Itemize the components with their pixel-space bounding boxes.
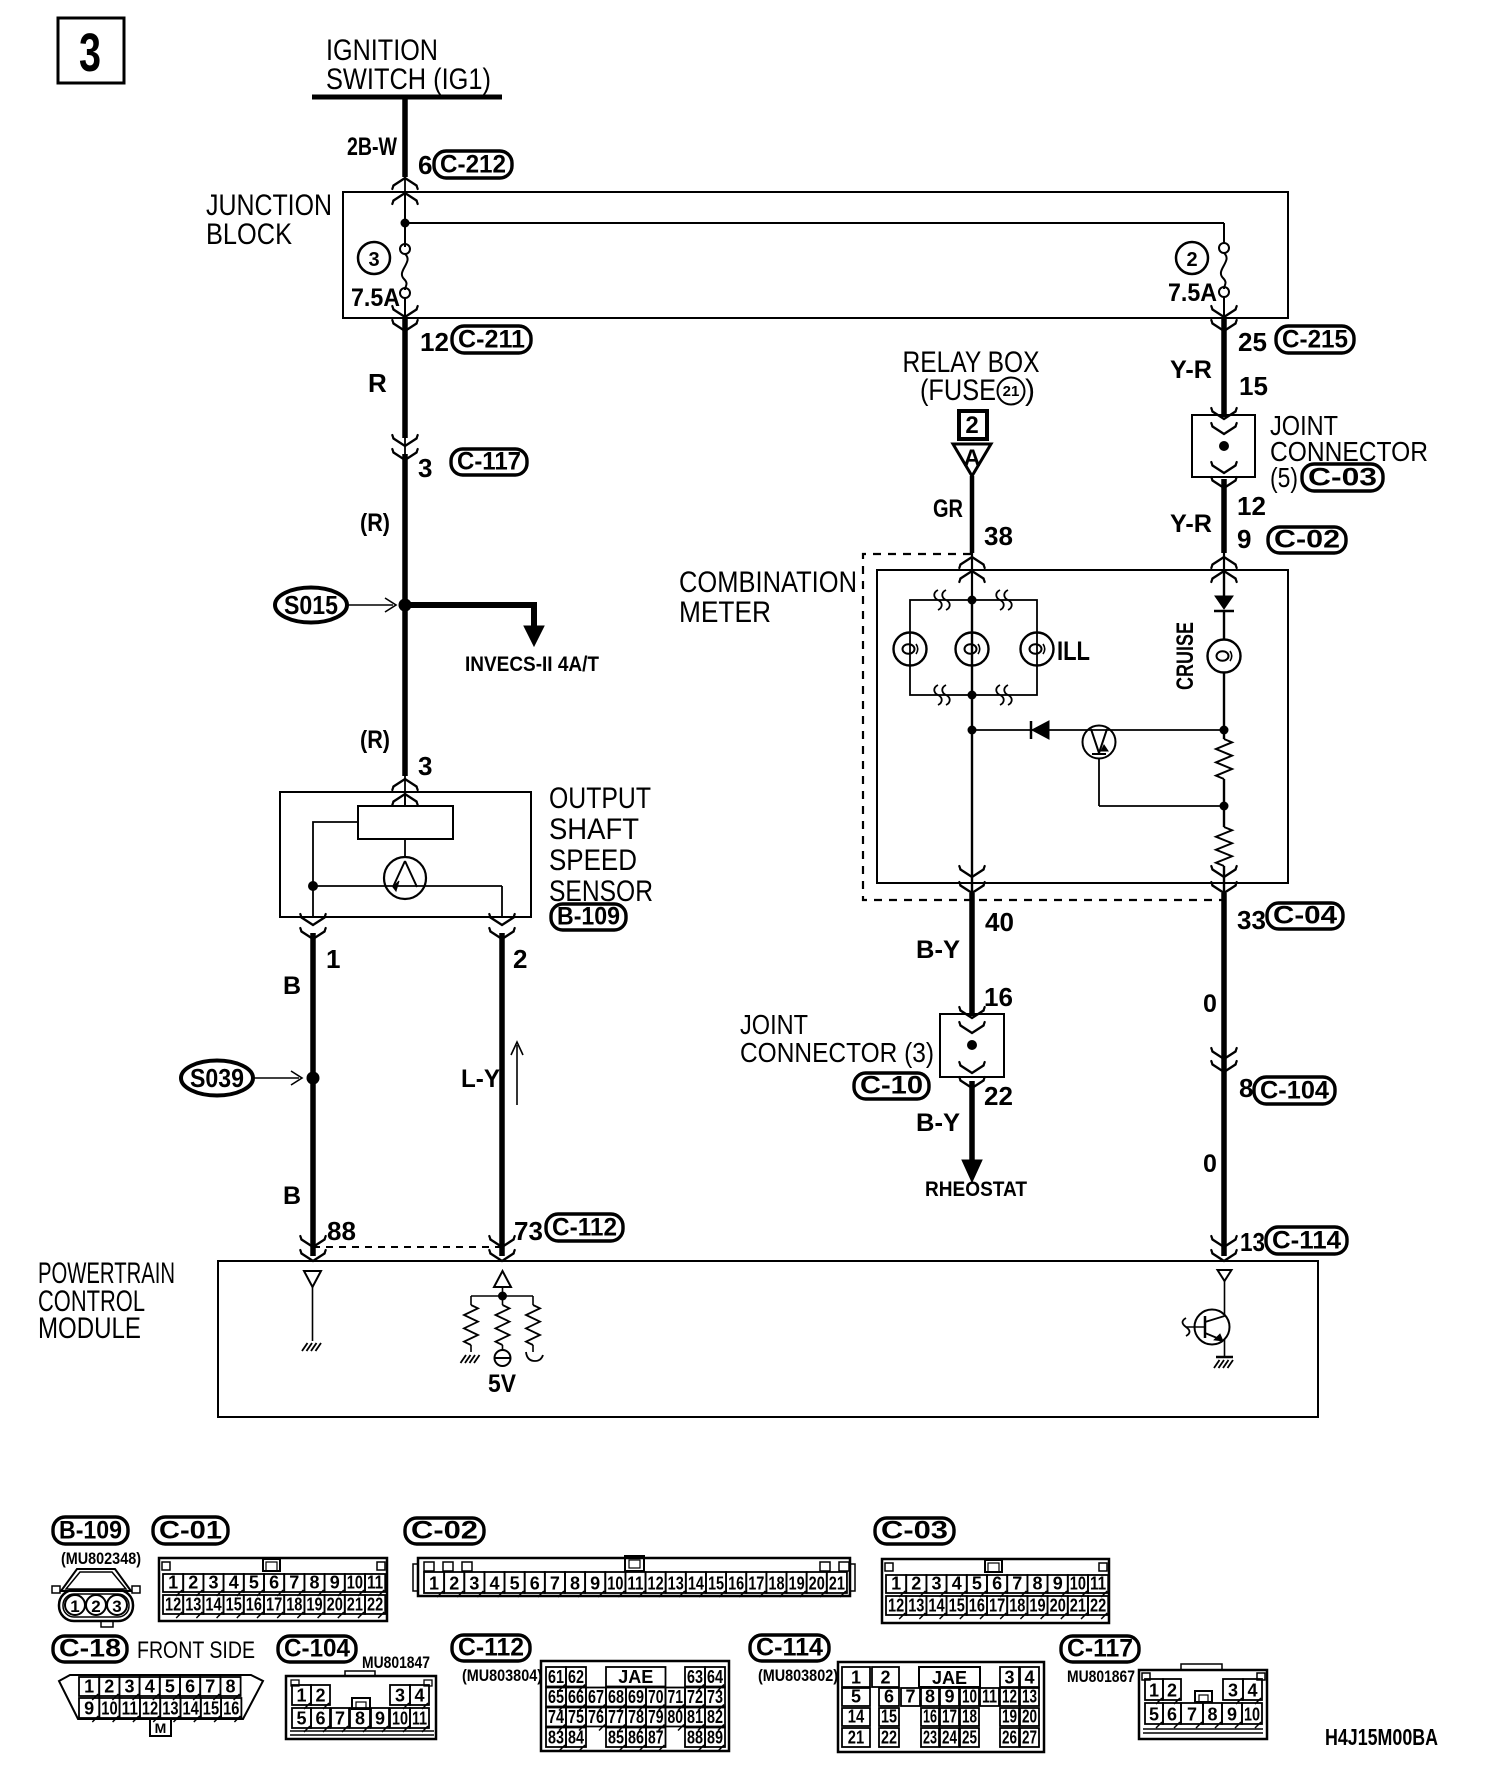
svg-text:16: 16 — [728, 1574, 744, 1594]
svg-text:C-211: C-211 — [458, 326, 525, 354]
svg-text:2: 2 — [449, 1574, 459, 1594]
svg-text:INVECS-II 4A/T: INVECS-II 4A/T — [465, 653, 599, 676]
transistor Q2 dimmer driver — [1083, 726, 1116, 759]
wire R — [402, 318, 408, 438]
svg-text:4: 4 — [952, 1574, 962, 1594]
wire inside junction block — [404, 192, 406, 247]
svg-text:9: 9 — [944, 1687, 954, 1707]
svg-text:SHAFT: SHAFT — [549, 813, 639, 846]
svg-text:(R): (R) — [360, 509, 390, 537]
svg-text:14: 14 — [183, 1699, 199, 1719]
connector C-18 pinout drawing — [59, 1675, 263, 1719]
bus wire to fuse 2 — [405, 222, 1224, 224]
resistor R5 in PCM — [532, 1296, 534, 1305]
svg-text:C-04: C-04 — [1273, 902, 1337, 930]
diode D1 dimmer feed — [972, 729, 1224, 731]
svg-text:3: 3 — [469, 1574, 479, 1594]
svg-text:80: 80 — [668, 1707, 684, 1727]
svg-text:65: 65 — [548, 1687, 564, 1707]
svg-text:11: 11 — [412, 1709, 427, 1729]
svg-text:RHEOSTAT: RHEOSTAT — [925, 1178, 1027, 1201]
svg-text:0: 0 — [1203, 990, 1217, 1018]
svg-text:18: 18 — [286, 1595, 302, 1615]
lamp ILL right — [1021, 633, 1054, 666]
svg-text:C-02: C-02 — [411, 1517, 478, 1545]
svg-text:12: 12 — [888, 1596, 904, 1616]
svg-text:Y-R: Y-R — [1170, 510, 1212, 538]
svg-text:19: 19 — [789, 1574, 805, 1594]
svg-text:2: 2 — [911, 1574, 921, 1594]
5V source symbol — [495, 1350, 511, 1366]
meter pin 40 symbol — [961, 870, 984, 878]
svg-text:5: 5 — [510, 1574, 520, 1594]
sensor pin 2 symbol — [491, 918, 514, 926]
PCM input triangle pin73 — [494, 1271, 511, 1287]
sensor internal wiring — [313, 822, 358, 886]
svg-text:8: 8 — [225, 1677, 235, 1697]
svg-text:3: 3 — [368, 249, 379, 271]
svg-text:76: 76 — [588, 1707, 604, 1727]
svg-text:6: 6 — [884, 1687, 894, 1707]
svg-text:C-01: C-01 — [159, 1517, 222, 1545]
connector C-212 symbol — [404, 177, 406, 192]
svg-text:S039: S039 — [190, 1063, 244, 1093]
connector C-215 label — [1276, 326, 1354, 353]
svg-text:21: 21 — [848, 1728, 864, 1748]
svg-text:62: 62 — [568, 1667, 584, 1687]
svg-text:1: 1 — [891, 1574, 901, 1594]
svg-text:C-114: C-114 — [756, 1634, 823, 1662]
svg-text:C-215: C-215 — [1282, 326, 1348, 354]
ground at Q3 emitter — [1224, 1340, 1226, 1357]
svg-text:FRONT SIDE: FRONT SIDE — [137, 1637, 255, 1664]
combination meter pin 38 symbol — [961, 557, 984, 565]
svg-text:0: 0 — [1203, 1150, 1217, 1178]
svg-text:66: 66 — [568, 1687, 584, 1707]
svg-text:1: 1 — [296, 1686, 306, 1706]
svg-text:C-02: C-02 — [1274, 526, 1340, 554]
svg-text:10: 10 — [347, 1573, 363, 1593]
svg-text:(MU803802): (MU803802) — [758, 1666, 838, 1685]
svg-text:JAE: JAE — [618, 1667, 653, 1687]
connector C-04 label — [1267, 903, 1343, 929]
svg-text:3: 3 — [124, 1677, 134, 1697]
fusible link triangle A — [953, 444, 991, 476]
svg-text:JOINT: JOINT — [740, 1009, 808, 1040]
svg-text:10: 10 — [392, 1709, 408, 1729]
svg-text:12: 12 — [165, 1595, 181, 1615]
svg-text:64: 64 — [707, 1667, 723, 1687]
connector C-10 label — [854, 1073, 929, 1099]
sensor pin 1 symbol — [302, 918, 325, 926]
svg-text:C-112: C-112 — [458, 1634, 524, 1662]
node S039 — [307, 1072, 320, 1085]
resistor R1 in meter — [1216, 739, 1232, 779]
svg-text:2: 2 — [104, 1677, 114, 1697]
PCM pin 13 symbol — [1213, 1240, 1236, 1248]
joint connector C-03 box — [1192, 415, 1255, 477]
svg-text:15: 15 — [226, 1595, 242, 1615]
connector C-02 label — [1268, 527, 1346, 553]
svg-text:9: 9 — [1053, 1574, 1063, 1594]
svg-text:MODULE: MODULE — [38, 1312, 141, 1345]
connector C-01 pinout drawing — [159, 1558, 387, 1621]
svg-text:(MU802348): (MU802348) — [61, 1549, 141, 1568]
svg-text:B: B — [283, 1182, 301, 1210]
wire pin73 to node — [502, 1287, 504, 1296]
svg-text:7.5A: 7.5A — [1168, 279, 1217, 307]
svg-text:22: 22 — [367, 1595, 383, 1615]
svg-text:11: 11 — [1090, 1574, 1106, 1594]
svg-text:1: 1 — [1149, 1681, 1159, 1701]
svg-text:3: 3 — [395, 1686, 405, 1706]
connector C-02 pinout label — [405, 1518, 484, 1544]
svg-text:BLOCK: BLOCK — [206, 218, 292, 251]
svg-text:7: 7 — [905, 1687, 915, 1707]
svg-text:1: 1 — [70, 1597, 79, 1616]
svg-text:71: 71 — [668, 1687, 684, 1707]
svg-text:(MU803804): (MU803804) — [462, 1666, 542, 1685]
svg-text:MU801867: MU801867 — [1067, 1667, 1135, 1686]
svg-text:5: 5 — [249, 1573, 259, 1593]
svg-text:24: 24 — [942, 1728, 957, 1748]
svg-text:8: 8 — [1032, 1574, 1042, 1594]
wire GR — [970, 476, 975, 553]
svg-text:73: 73 — [514, 1216, 543, 1246]
svg-text:C-117: C-117 — [457, 448, 521, 476]
svg-text:20: 20 — [327, 1595, 343, 1615]
svg-text:(R): (R) — [360, 726, 390, 754]
svg-text:15: 15 — [949, 1596, 965, 1616]
svg-text:16: 16 — [923, 1707, 937, 1727]
svg-text:3: 3 — [112, 1597, 121, 1616]
wire Y-R upper — [1221, 318, 1227, 417]
connector C-212 label — [434, 151, 512, 178]
svg-text:10: 10 — [101, 1699, 117, 1719]
svg-text:C-212: C-212 — [440, 151, 506, 179]
svg-text:S015: S015 — [284, 590, 338, 620]
wire 2B-W from ignition switch — [402, 97, 408, 177]
svg-text:18: 18 — [962, 1707, 977, 1727]
svg-text:88: 88 — [327, 1216, 356, 1246]
illumination lamp group — [910, 600, 1037, 695]
svg-text:21: 21 — [347, 1595, 363, 1615]
svg-text:15: 15 — [1239, 371, 1268, 401]
svg-text:79: 79 — [648, 1707, 664, 1727]
wire to node — [971, 600, 973, 695]
cruise branch wiring — [1223, 672, 1225, 739]
svg-text:19: 19 — [1002, 1707, 1017, 1727]
PCM input triangle pin13 — [1218, 1270, 1232, 1281]
wire B upper — [310, 933, 316, 1256]
svg-text:2: 2 — [91, 1597, 100, 1616]
svg-text:22: 22 — [1090, 1596, 1106, 1616]
svg-text:METER: METER — [679, 596, 771, 629]
diode D2 cruise branch — [1215, 596, 1233, 609]
svg-text:4: 4 — [489, 1574, 499, 1594]
wire Y-R lower — [1221, 479, 1227, 553]
wire pull-up bus — [471, 1295, 533, 1297]
svg-text:85: 85 — [608, 1728, 624, 1748]
svg-text:C-114: C-114 — [1272, 1227, 1341, 1255]
svg-text:84: 84 — [568, 1728, 584, 1748]
resistor R3 in PCM — [470, 1296, 472, 1305]
svg-text:1: 1 — [84, 1677, 94, 1697]
svg-text:6: 6 — [418, 150, 432, 180]
svg-text:9: 9 — [1237, 524, 1251, 554]
svg-text:4: 4 — [1247, 1681, 1257, 1701]
svg-text:7: 7 — [335, 1709, 345, 1729]
svg-text:SPEED: SPEED — [549, 844, 637, 877]
svg-text:8: 8 — [1207, 1705, 1217, 1725]
combination meter board outline — [877, 570, 1288, 883]
connector C-112 dashed link — [313, 1246, 502, 1248]
svg-text:B-Y: B-Y — [916, 1109, 960, 1137]
svg-text:38: 38 — [984, 521, 1013, 551]
svg-text:2: 2 — [965, 412, 978, 439]
connector C-03 pinout label — [875, 1518, 954, 1544]
svg-text:): ) — [1025, 374, 1035, 407]
wire L-Y — [499, 933, 505, 1256]
svg-text:7: 7 — [1012, 1574, 1022, 1594]
svg-text:20: 20 — [809, 1574, 825, 1594]
svg-text:5: 5 — [972, 1574, 982, 1594]
svg-text:63: 63 — [687, 1667, 703, 1687]
svg-text:88: 88 — [687, 1728, 703, 1748]
junction block outline — [343, 192, 1288, 318]
svg-text:15: 15 — [203, 1699, 219, 1719]
svg-text:13: 13 — [908, 1596, 924, 1616]
svg-text:26: 26 — [1002, 1728, 1017, 1748]
svg-text:1: 1 — [429, 1574, 439, 1594]
svg-text:11: 11 — [627, 1574, 643, 1594]
svg-text:12: 12 — [420, 327, 449, 357]
svg-text:2: 2 — [188, 1573, 198, 1593]
svg-text:27: 27 — [1022, 1728, 1037, 1748]
svg-text:22: 22 — [984, 1081, 1013, 1111]
svg-text:12: 12 — [648, 1574, 664, 1594]
svg-text:OUTPUT: OUTPUT — [549, 782, 651, 815]
PCM pin 88 symbol — [302, 1240, 325, 1248]
svg-text:72: 72 — [687, 1687, 703, 1707]
svg-text:C-104: C-104 — [1260, 1077, 1329, 1105]
svg-text:3: 3 — [1004, 1668, 1014, 1688]
connector C-104 inline symbol — [1213, 1052, 1236, 1060]
svg-text:3: 3 — [418, 453, 432, 483]
svg-text:67: 67 — [588, 1687, 604, 1707]
resistor R2 in meter — [1223, 806, 1225, 827]
svg-text:CRUISE: CRUISE — [1172, 622, 1199, 690]
svg-text:13: 13 — [185, 1595, 201, 1615]
svg-text:25: 25 — [1238, 327, 1267, 357]
lamp ILL centre — [956, 633, 989, 666]
lamp ILL left — [894, 633, 927, 666]
signal squiggle under R5 — [526, 1352, 543, 1361]
connector C-114 pinout label — [750, 1635, 829, 1661]
connector C-112 label — [546, 1214, 623, 1241]
svg-text:C-104: C-104 — [284, 1635, 350, 1663]
svg-text:R: R — [368, 368, 387, 398]
svg-text:2: 2 — [513, 944, 527, 974]
svg-text:7: 7 — [1187, 1705, 1197, 1725]
svg-text:9: 9 — [84, 1699, 94, 1719]
svg-text:C-18: C-18 — [59, 1635, 121, 1663]
svg-text:B-109: B-109 — [59, 1517, 122, 1545]
connector C-03 label — [1302, 464, 1383, 491]
svg-text:70: 70 — [648, 1687, 664, 1707]
svg-text:25: 25 — [962, 1728, 977, 1748]
connector C-01 pinout label — [153, 1517, 228, 1544]
connector B-109 pinout drawing — [61, 1569, 131, 1591]
output shaft speed sensor box — [280, 792, 531, 917]
svg-text:4: 4 — [145, 1677, 155, 1697]
svg-text:21: 21 — [1070, 1596, 1086, 1616]
svg-text:M: M — [155, 1720, 167, 1736]
fusible link box 2 — [959, 411, 987, 439]
sheet number box 3 — [58, 18, 124, 83]
svg-text:6: 6 — [185, 1677, 195, 1697]
svg-text:19: 19 — [1029, 1596, 1045, 1616]
svg-text:Y-R: Y-R — [1170, 356, 1212, 384]
svg-text:3: 3 — [418, 751, 432, 781]
branch wire to INVECS-II 4A/T — [405, 602, 534, 608]
svg-text:12: 12 — [142, 1699, 158, 1719]
svg-text:4: 4 — [229, 1573, 239, 1593]
wire (R) upper — [402, 454, 408, 776]
svg-text:18: 18 — [768, 1574, 784, 1594]
svg-text:8: 8 — [309, 1573, 319, 1593]
svg-text:5: 5 — [1149, 1705, 1159, 1725]
connector C-18 pinout label — [53, 1636, 127, 1662]
svg-text:14: 14 — [848, 1707, 864, 1727]
connector C-211 label — [452, 326, 531, 353]
connector C-117 label — [451, 449, 527, 475]
node junction-block tap — [401, 219, 410, 228]
svg-text:8: 8 — [355, 1709, 365, 1729]
svg-text:69: 69 — [628, 1687, 644, 1707]
svg-text:COMBINATION: COMBINATION — [679, 566, 857, 599]
svg-text:15: 15 — [708, 1574, 724, 1594]
svg-text:12: 12 — [1002, 1687, 1017, 1707]
svg-text:ILL: ILL — [1057, 636, 1090, 666]
svg-text:CONNECTOR (3): CONNECTOR (3) — [740, 1037, 934, 1068]
svg-text:C-03: C-03 — [881, 1517, 948, 1545]
svg-text:20: 20 — [1022, 1707, 1037, 1727]
svg-text:A: A — [963, 445, 980, 472]
PCM input triangle pin88 — [304, 1271, 321, 1287]
svg-text:23: 23 — [923, 1728, 937, 1748]
connector C-117 pinout drawing — [1139, 1670, 1267, 1739]
svg-text:5: 5 — [296, 1709, 306, 1729]
svg-text:33: 33 — [1237, 905, 1266, 935]
svg-text:22: 22 — [881, 1728, 897, 1748]
svg-text:15: 15 — [881, 1707, 897, 1727]
svg-text:GR: GR — [933, 495, 963, 523]
svg-text:40: 40 — [985, 907, 1014, 937]
joint connector C-10 box — [940, 1014, 1004, 1077]
svg-text:75: 75 — [568, 1707, 584, 1727]
svg-text:2: 2 — [1167, 1681, 1177, 1701]
transistor Q3 in PCM — [1224, 1281, 1226, 1316]
svg-text:78: 78 — [628, 1707, 644, 1727]
connector C-112 pinout drawing — [541, 1661, 729, 1751]
svg-text:4: 4 — [1024, 1668, 1034, 1688]
svg-text:13: 13 — [668, 1574, 684, 1594]
svg-text:10: 10 — [1070, 1574, 1086, 1594]
wire B-Y upper — [969, 893, 975, 1016]
svg-text:2: 2 — [880, 1668, 890, 1688]
svg-text:7: 7 — [205, 1677, 215, 1697]
connector C-02 pinout drawing — [418, 1558, 850, 1596]
connector C-104 pinout drawing — [286, 1676, 436, 1739]
svg-text:9: 9 — [1227, 1705, 1237, 1725]
svg-text:16: 16 — [969, 1596, 985, 1616]
svg-text:(FUSE: (FUSE — [920, 374, 996, 407]
svg-text:C-117: C-117 — [1067, 1635, 1133, 1663]
connector C-03 pinout drawing — [882, 1559, 1109, 1623]
svg-text:1: 1 — [168, 1573, 178, 1593]
ground via pin 88 — [312, 1287, 314, 1341]
connector C-215 symbol — [1213, 310, 1236, 318]
svg-text:SWITCH (IG1): SWITCH (IG1) — [326, 63, 491, 96]
svg-text:13: 13 — [1022, 1687, 1037, 1707]
connector C-114 label — [1266, 1227, 1347, 1254]
svg-text:JAE: JAE — [932, 1668, 967, 1688]
svg-text:86: 86 — [628, 1728, 644, 1748]
svg-text:10: 10 — [962, 1687, 977, 1707]
svg-text:8: 8 — [570, 1574, 580, 1594]
combination meter pin 9 symbol — [1213, 557, 1236, 565]
svg-text:C-112: C-112 — [552, 1214, 617, 1242]
svg-text:9: 9 — [330, 1573, 340, 1593]
connector C-104 label — [1254, 1077, 1335, 1104]
svg-text:10: 10 — [1244, 1705, 1260, 1725]
svg-text:3: 3 — [1228, 1681, 1238, 1701]
connector C-117 inline symbol — [394, 439, 417, 447]
connector B-109 pin 3 symbol — [394, 779, 417, 787]
svg-text:20: 20 — [1050, 1596, 1066, 1616]
lamp CRUISE — [1208, 640, 1241, 673]
svg-text:17: 17 — [266, 1595, 282, 1615]
svg-text:B-109: B-109 — [557, 903, 620, 931]
svg-text:12: 12 — [1237, 491, 1266, 521]
svg-text:8: 8 — [925, 1687, 935, 1707]
svg-text:13: 13 — [1240, 1227, 1265, 1257]
svg-text:17: 17 — [989, 1596, 1005, 1616]
svg-text:2: 2 — [1186, 249, 1197, 271]
svg-text:L-Y: L-Y — [461, 1065, 500, 1093]
connector C-114 pinout drawing — [838, 1662, 1044, 1752]
transistor Q1 sensor pickup — [404, 839, 406, 857]
svg-text:16: 16 — [223, 1699, 239, 1719]
connector C-211 symbol — [394, 310, 417, 318]
svg-text:2: 2 — [315, 1686, 325, 1706]
svg-text:73: 73 — [707, 1687, 723, 1707]
svg-text:14: 14 — [205, 1595, 221, 1615]
combination meter dashed outline — [863, 554, 1223, 900]
meter pin 33 symbol — [1213, 870, 1236, 878]
svg-text:11: 11 — [982, 1687, 997, 1707]
svg-text:6: 6 — [269, 1573, 279, 1593]
svg-text:6: 6 — [530, 1574, 540, 1594]
svg-text:18: 18 — [1009, 1596, 1025, 1616]
svg-text:83: 83 — [548, 1728, 564, 1748]
svg-text:3: 3 — [931, 1574, 941, 1594]
svg-text:14: 14 — [688, 1574, 704, 1594]
svg-text:74: 74 — [548, 1707, 564, 1727]
svg-text:2B-W: 2B-W — [347, 133, 397, 161]
connector B-109 pinout label — [53, 1517, 128, 1544]
